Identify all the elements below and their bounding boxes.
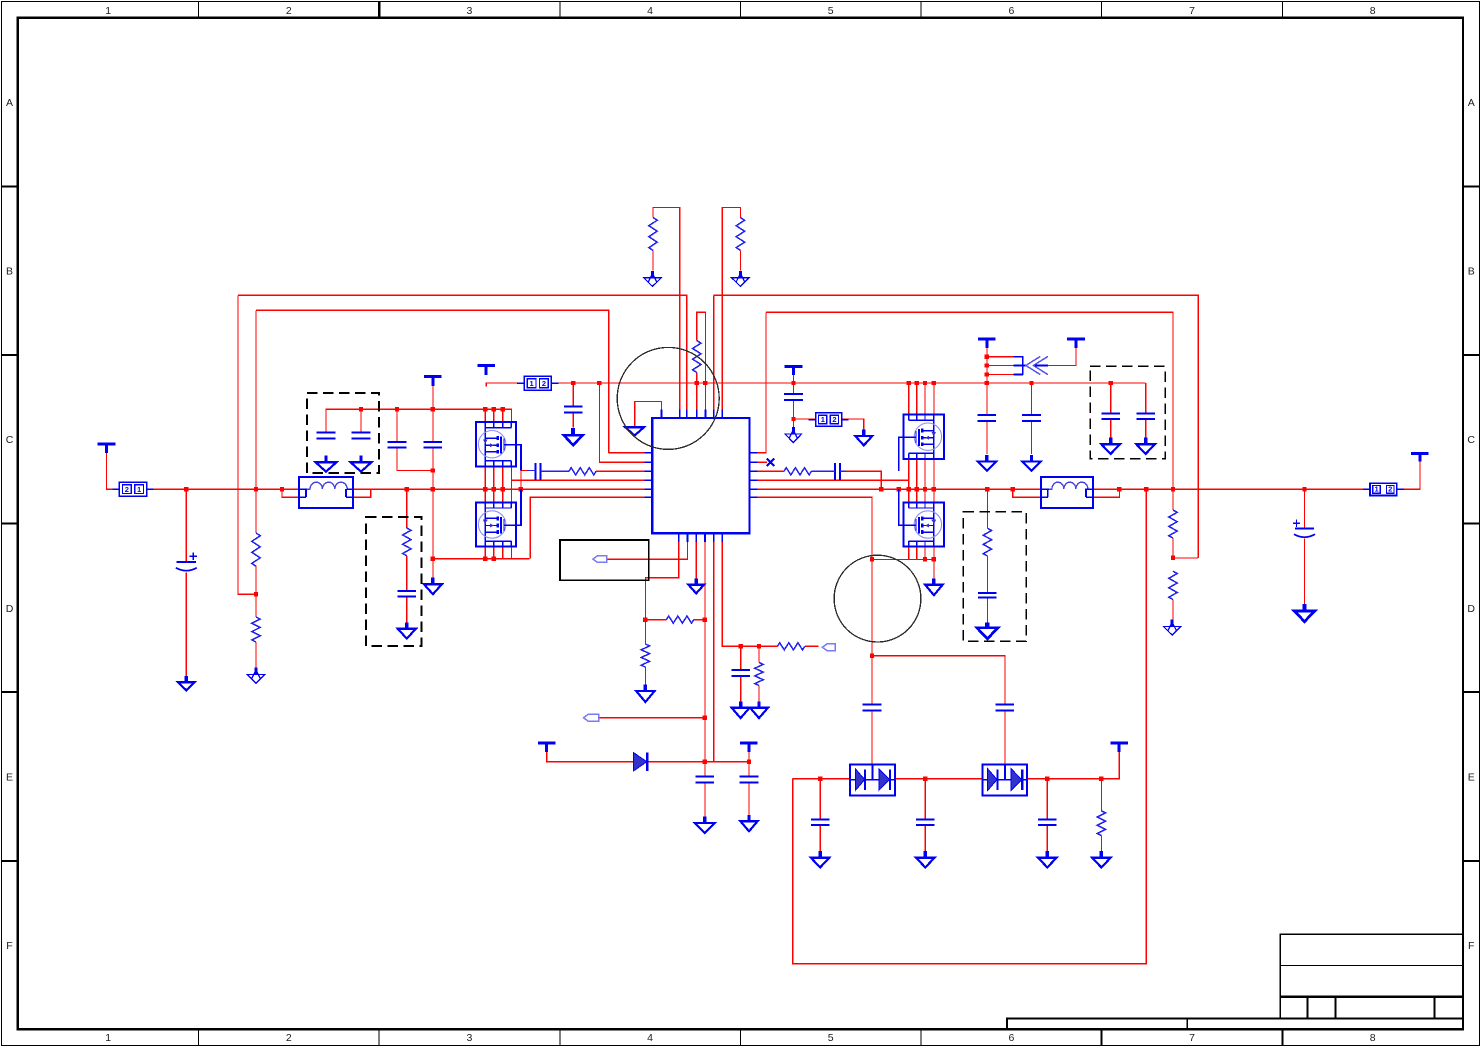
svg-text:2: 2 (286, 1032, 292, 1044)
svg-text:A: A (6, 97, 13, 109)
svg-text:4: 4 (647, 5, 653, 17)
svg-text:7: 7 (1189, 5, 1195, 17)
wire cap C20 left lead (527, 470, 535, 472)
junction main-rc881 (879, 487, 883, 491)
wire long drop x1146 (793, 489, 1147, 964)
capacitor C13 boot (696, 777, 715, 783)
wire mosfet L bot pins 3 (502, 546, 504, 558)
power bar V5 T (978, 339, 996, 348)
wire rload drop x987 (986, 489, 988, 528)
wire right riser drop x1173 (1172, 489, 1174, 510)
wire mosfet L mid pins 3 (502, 466, 504, 503)
wire out cap gnd x1047 (1046, 825, 1048, 857)
svg-text:B: B (1468, 266, 1475, 278)
wire chevron branch 3 (987, 374, 1013, 376)
wire pin L2 drop (599, 383, 644, 462)
capacitor C22 (731, 670, 750, 676)
column tick bottom 6|7 (1101, 1029, 1103, 1045)
transistor Q1 (476, 422, 516, 466)
junction railA-C3 (395, 407, 399, 411)
wire rail B left inner (256, 310, 609, 453)
capacitor C16 bridge (996, 705, 1015, 711)
wire top resistor loop left (653, 207, 680, 409)
wire chevron right link (1048, 342, 1076, 366)
junction bottomrail-cap1047 (1045, 776, 1049, 780)
ground GND21 (1294, 604, 1315, 622)
junction b4-port2 (703, 715, 707, 719)
transistor Q4 (903, 502, 944, 546)
svg-text:D: D (6, 603, 14, 615)
resistor R8 (1169, 510, 1177, 538)
junction main-x1146 (1144, 487, 1148, 491)
pin stub T3 (686, 409, 688, 418)
junction main-gateL (519, 487, 523, 491)
wire R bottom node to resistor (645, 619, 666, 621)
wire mosfet R mid pins 2 (916, 459, 918, 503)
svg-text:1: 1 (821, 415, 825, 424)
wire main rail IC to choke R (757, 488, 1041, 490)
dashed box load (963, 512, 1026, 641)
wire bulk cap left drop (185, 489, 187, 561)
junction vdd-qr1 (906, 381, 910, 385)
wire boot cap2 gnd (748, 783, 750, 822)
jack connector J1 chevrons (1013, 356, 1048, 375)
column tick top 3|4 (559, 2, 561, 18)
pin stub B2 (687, 533, 689, 542)
junction chev-b1 (985, 355, 989, 359)
capacitor C12 load (978, 593, 997, 598)
wire mosfet R bot pins 3 (924, 546, 926, 559)
junction b6-cap740 (738, 644, 742, 648)
junction main-chokejogL (280, 487, 284, 491)
wire decouple cap gnd x1031 (1031, 421, 1033, 454)
wire main rail left from connector P1 (107, 453, 120, 489)
row tick right B|C (1463, 354, 1479, 356)
pin stub R5 (749, 488, 757, 490)
svg-text:1: 1 (137, 485, 141, 494)
pin stub R6 (749, 496, 757, 498)
junction main-x433 (431, 487, 435, 491)
wire IC B4 long drop (704, 542, 706, 762)
pin stub T2 (679, 409, 681, 418)
svg-text:C: C (6, 434, 14, 446)
pin stub B1 (678, 533, 680, 542)
wire aux junction to conn3 (794, 418, 816, 420)
wire IC B2 to port1 (607, 542, 688, 559)
capacitor C20 series L (535, 463, 540, 480)
wire cap C20 lead (540, 470, 569, 472)
junction gndrailL-q2 (491, 556, 495, 560)
junction c3jog-x433 (431, 468, 435, 472)
junction main-snubL (405, 487, 409, 491)
title block bottom line (1280, 1017, 1463, 1019)
svg-text:2: 2 (542, 379, 546, 388)
junction railA-Q3 (500, 407, 504, 411)
junction vdd-auxcap (791, 381, 795, 385)
row tick right A|B (1463, 185, 1479, 187)
junction main-qr2 (915, 487, 919, 491)
row tick left B|C (2, 354, 18, 356)
column tick bottom 5|6 (920, 1029, 922, 1045)
svg-text:2: 2 (1388, 485, 1392, 494)
junction main-bulkcapL (184, 487, 188, 491)
power bar VAUX T (785, 367, 803, 376)
column tick bottom 2|3 (378, 1029, 380, 1045)
wire cap C3 bottom jog (397, 448, 433, 471)
wire T aux mid stem (793, 368, 795, 383)
resistor R2 (736, 218, 744, 251)
wire out res drop x1101 (1100, 779, 1102, 811)
wire port2 line (599, 717, 705, 719)
junction main-gateR (897, 487, 901, 491)
wire pin R4 line (757, 479, 908, 481)
wire boot cap1 drop (704, 762, 706, 777)
wire rail VDD conn2 to right (551, 382, 1145, 384)
wire mosfet R pins top 2 (916, 383, 918, 415)
wire rail VDD right corner down (1145, 383, 1147, 413)
wire mosfet R pins top 3 (924, 383, 926, 415)
wire gnd stub below rail R (933, 559, 935, 578)
connector P2 (517, 376, 558, 390)
wire conn3 to gnd (842, 419, 864, 436)
transistor Q3 (903, 415, 944, 459)
title block row line 1 (1280, 964, 1463, 966)
wire top resistor right to gnd (739, 250, 741, 270)
svg-text:C: C (1467, 434, 1475, 446)
wire T aux2 stem (986, 342, 988, 383)
junction main-q2 (491, 487, 495, 491)
wire right divider mid (1172, 538, 1174, 558)
column tick bottom 3|4 (559, 1029, 561, 1045)
op-amp controller IC U1 (652, 418, 749, 533)
junction main-jog1119 (1117, 487, 1121, 491)
wire mosfet R mid pins 4 (933, 459, 935, 503)
capacitor C3 (388, 442, 407, 448)
wire cap C4 drop (432, 409, 434, 442)
junction vdd-chev (985, 381, 989, 385)
column tick top 2|3 (378, 2, 381, 18)
wire main rail choke R to connector P4 (1093, 488, 1370, 490)
wire snubber R to C (406, 556, 408, 591)
pin stub L3 (645, 470, 653, 472)
transistor Q2 (476, 502, 516, 546)
ground GND5 conn3 (855, 430, 872, 446)
wire top resistor loop right (722, 207, 740, 409)
wire mosfet R bot pins 4 (933, 546, 935, 559)
capacitor C11 snub (398, 591, 417, 597)
capacitor C9 (1101, 413, 1120, 419)
junction vdd-T4 (695, 381, 699, 385)
ground GND8 (925, 578, 942, 595)
wire sw node down x872 (871, 559, 873, 704)
wire inner left riser mid (255, 566, 257, 617)
wire mosfet R mid pins 3 (924, 459, 926, 503)
column tick top 7|8 (1281, 2, 1283, 18)
wire rail VDD T2 corner (486, 383, 524, 387)
wire cap gnd x740 (740, 676, 742, 708)
diode module D3 (dual) (983, 764, 1028, 795)
junction chev-b2 (985, 363, 989, 367)
wire out cap gnd x925 (924, 825, 926, 857)
junction main-qr1 (906, 487, 910, 491)
capacitor C5 (564, 407, 583, 413)
pin stub T4 (696, 409, 698, 418)
wire gnd rail right cluster (872, 558, 934, 560)
junction gndrailL-x433 (431, 556, 435, 560)
wire pin L1 line (609, 452, 645, 454)
capacitor CE1 polarized (176, 553, 197, 571)
wire cap C2 drop (360, 409, 362, 432)
junction main-q1 (483, 487, 487, 491)
wire hs resistor to port3 (805, 645, 819, 647)
svg-text:3: 3 (466, 1032, 472, 1044)
pin stub R1 (749, 452, 757, 454)
junction railA-Q1 (483, 407, 487, 411)
svg-text:B: B (6, 266, 13, 278)
resistor R3 sense (693, 341, 701, 373)
row tick left D|E (2, 691, 18, 693)
row tick right C|D (1463, 523, 1479, 525)
connector P3 (809, 413, 849, 426)
svg-text:1: 1 (1375, 485, 1379, 494)
wire mosfet R pins top 1 (908, 383, 910, 415)
resistor R11 (755, 663, 763, 686)
ground GND7 (1022, 455, 1041, 471)
wire out cap drop x925 (924, 779, 926, 820)
pin stub R2 (749, 461, 757, 463)
junction bottomrail-cap820 (818, 776, 822, 780)
title block cell divider 2 (1335, 997, 1337, 1019)
wire cap C21 right lead (840, 470, 846, 472)
wire pin R6 to gnd rail R (757, 497, 872, 559)
power bar VBOOT R (740, 743, 758, 752)
wire mosfet L mid pin 4 (510, 466, 512, 503)
wire mosfet L pins top 3 (502, 409, 504, 423)
junction vdd-cap573 (571, 381, 575, 385)
wire IC gnd loop top left (635, 401, 662, 426)
row tick right D|E (1463, 691, 1479, 693)
port PORT3 (822, 644, 835, 651)
wire sense resistor to IC T4 (696, 373, 698, 410)
pin stub L2 (645, 461, 653, 463)
wire chevron branch 2 (987, 365, 1013, 367)
svg-text:F: F (6, 940, 12, 952)
pin stub B6 (721, 533, 723, 542)
wire rload to cap x987 (986, 556, 988, 593)
wire IC T7 riser (721, 207, 723, 409)
junction main-rload (985, 487, 989, 491)
junction vdd-pinL2 (597, 381, 601, 385)
connector P4 (1363, 483, 1404, 495)
wire mosfet L bot pin 4 (510, 546, 512, 558)
wire out cap drop x820 (819, 779, 821, 820)
wire out res gnd x1101 (1100, 836, 1102, 858)
svg-text:4: 4 (647, 1032, 653, 1044)
junction b6-res759 (757, 644, 761, 648)
ground GND14 (695, 817, 715, 834)
wire vdd cap drop x573 (572, 383, 574, 407)
sheet edge line left of title block (1007, 1019, 1280, 1030)
svg-text:1: 1 (530, 379, 534, 388)
resistor R16 (777, 643, 804, 650)
wire IC B3 gnd drop (695, 542, 697, 578)
capacitor C1 (317, 433, 336, 439)
wire sense resistor loop T4 (697, 312, 706, 409)
column tick top 6|7 (1101, 2, 1103, 18)
capacitor C15 bridge (863, 705, 882, 711)
wire T boot left stem (547, 745, 634, 762)
wire rail B right inner (766, 312, 1173, 489)
annotation circle 1 (617, 347, 719, 449)
wire snubber drop R11 (406, 489, 408, 528)
wire cap bridge 2 to diode (1004, 711, 1006, 765)
junction gndrailR-qr4 (932, 557, 936, 561)
junction b1-resnode (643, 617, 647, 621)
wire boot cap1 gnd (704, 783, 706, 824)
wire pin R1 riser (757, 312, 766, 453)
wire choke L bottom jog right (353, 489, 371, 497)
junction b4-bootline (703, 760, 707, 764)
wire choke L bottom jog left (282, 489, 299, 497)
wire HV rail A (326, 409, 511, 432)
diode D1 (634, 753, 648, 771)
wire bottom rail diode right (1027, 748, 1120, 779)
wire bottom rail diode mid (895, 778, 982, 780)
dashed box input filter (307, 393, 379, 473)
pin stub L1 (645, 452, 653, 454)
wire bulk cap right drop (1304, 489, 1306, 527)
wire decouple cap gnd x987 (986, 421, 988, 454)
wire out cap gnd x820 (819, 825, 821, 857)
row tick left E|F (2, 860, 18, 862)
wire mosfet R pins top 4 (933, 383, 935, 415)
wire pin L6 to gnd rail (530, 497, 644, 558)
ground GND12 (732, 701, 750, 718)
dashed box snubber (366, 517, 422, 646)
wire mosfet R mid pins 1 (908, 459, 910, 503)
ground GND3 (564, 428, 583, 445)
junction vdd-cap1031 (1029, 381, 1033, 385)
ground GND6 (978, 455, 997, 471)
svg-text:8: 8 (1370, 5, 1376, 17)
svg-text:A: A (1468, 97, 1475, 109)
wire vertical inner left riser upper (255, 310, 257, 533)
annotation circle 2 (834, 555, 921, 642)
dashed box output caps (1090, 366, 1165, 458)
junction main-jog1013 (1011, 487, 1015, 491)
svg-text:D: D (1467, 603, 1475, 615)
svg-text:F: F (1468, 940, 1474, 952)
wire mosfet L pins top 1 (484, 409, 486, 423)
capacitor C6 aux (784, 394, 803, 400)
wire bulk cap left to ground (185, 573, 187, 683)
junction aux-conn3 (791, 417, 795, 421)
pin stub L6 (645, 496, 653, 498)
pin stub R4 (749, 479, 757, 481)
pin stub B5 (713, 533, 715, 542)
ground GND25 snub (398, 622, 416, 638)
junction main-qr3 (923, 487, 927, 491)
wire choke R bottom jog right (1093, 489, 1119, 497)
power bar VIN mid (424, 377, 442, 386)
wire IC T6 riser (713, 295, 715, 409)
svg-text:5: 5 (828, 5, 834, 17)
wire dashed caps right gnd 2 (1145, 419, 1147, 444)
title block row line 2 (1280, 996, 1463, 998)
title block cell divider 1 (1307, 997, 1309, 1019)
wire dashed caps right drop 1 (1110, 383, 1112, 413)
ground GND20 (178, 676, 195, 691)
svg-text:1: 1 (105, 5, 111, 17)
wire mosfet L bot pins 2 (493, 546, 495, 558)
port PORT2 (584, 714, 599, 721)
ground GND2 (351, 456, 372, 472)
junction vdd-qr3 (923, 381, 927, 385)
capacitor C14 boot (740, 777, 759, 783)
ground PGND5 hatched (1164, 620, 1181, 636)
wire IC B6 drop (722, 542, 777, 646)
column tick top 1|2 (198, 2, 200, 18)
wire RC line left red2 (596, 470, 644, 472)
wire main rail choke L to IC pin (353, 488, 645, 490)
resistor R6 snubber (403, 528, 411, 556)
wire diode to caps (648, 761, 750, 763)
wire IC T1 stub red (660, 401, 662, 409)
svg-text:E: E (6, 771, 13, 783)
ground PGND3 hatched (785, 427, 802, 443)
capacitor C10 (1136, 413, 1155, 419)
junction x1173-rail (1171, 556, 1175, 560)
svg-text:7: 7 (1189, 1032, 1195, 1044)
ground GND22 (977, 622, 998, 639)
wire bulk cap right gnd (1304, 539, 1306, 605)
pin stub T5 (704, 409, 706, 418)
capacitor C8 (1022, 415, 1041, 421)
pin stub B3 (695, 533, 697, 542)
ground PGND2 hatched (732, 271, 749, 287)
power bar V5 T2 (1067, 339, 1085, 348)
wire aux cap to junction (793, 400, 795, 419)
junction main-bulkcapR (1302, 487, 1306, 491)
junction b4-resnode (703, 617, 707, 621)
junction railA-Q2 (491, 407, 495, 411)
title block outline (1280, 934, 1463, 1018)
wire cap C21 lead (811, 470, 835, 472)
row tick left A|B (2, 185, 18, 187)
wire mosfet R bot pins 1 (908, 546, 910, 559)
wire IC B5 drop (713, 542, 715, 762)
wire boot cap2 drop (748, 762, 750, 777)
wire mosfet L pins top 2 (493, 409, 495, 423)
junction main-x256 (254, 487, 258, 491)
wire mosfet R bot pins 2 (916, 546, 918, 559)
svg-text:3: 3 (466, 5, 472, 17)
resistor R12 (1097, 811, 1105, 836)
resistor R13 (569, 468, 596, 475)
junction vdd-dashcap (1108, 381, 1112, 385)
wire pin R3 to resistor (757, 470, 784, 472)
capacitor C17 out (811, 819, 830, 825)
junction vdd-qr2 (915, 381, 919, 385)
svg-text:5: 5 (828, 1032, 834, 1044)
ground GND11 (636, 685, 654, 703)
capacitor CE2 polarized (1293, 520, 1315, 538)
no-connect X mark (767, 459, 774, 466)
resistor R14 (784, 468, 811, 475)
junction bottomrail-res1101 (1099, 776, 1103, 780)
inductor L1 (common-mode choke) (299, 477, 353, 508)
inductor L2 (common-mode choke) (1041, 477, 1093, 508)
